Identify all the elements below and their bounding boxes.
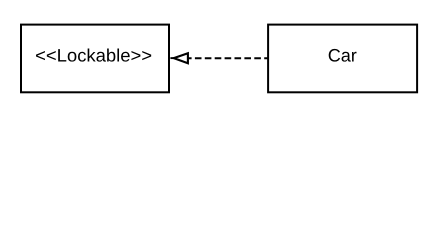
class box Car bbox=[268, 25, 417, 93]
label Car bbox=[329, 49, 357, 62]
arrowhead: hollow triangle bbox=[174, 53, 188, 63]
interface box Lockable bbox=[21, 25, 169, 93]
label <<Lockable>> bbox=[36, 48, 151, 61]
arrowhead: tip stub bbox=[170, 57, 174, 59]
wire: dashed realization line bbox=[185, 57, 268, 59]
